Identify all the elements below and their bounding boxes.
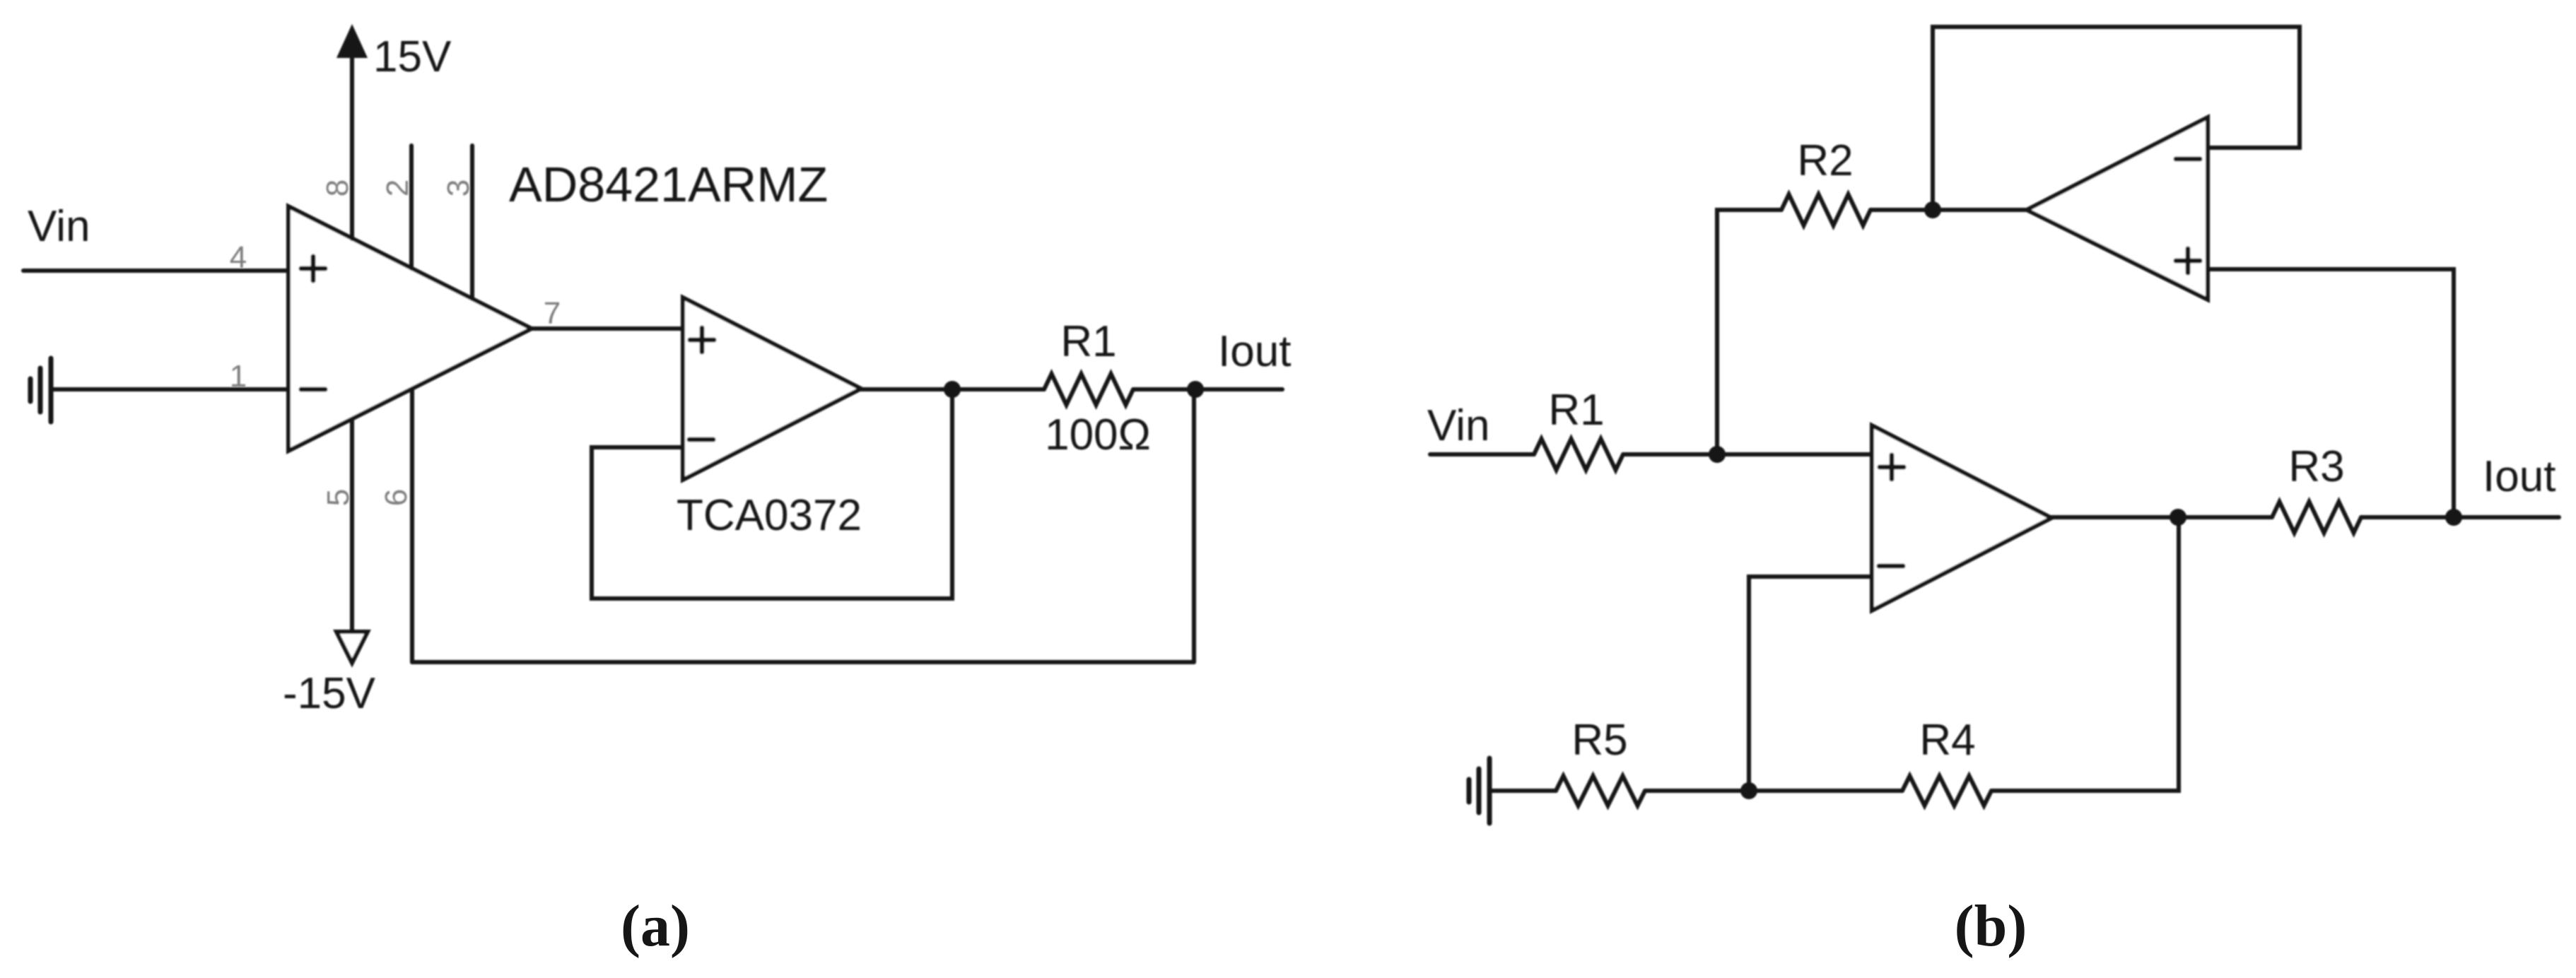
svg-text:Vin: Vin (1427, 401, 1490, 450)
wire bottom rail up to Iout node (1192, 389, 1196, 662)
wire ground to R5 (1489, 789, 1556, 793)
junction node output U2 (944, 381, 961, 398)
svg-text:5: 5 (321, 489, 356, 506)
op-amp U4 minus sign (1879, 564, 1903, 569)
wire R1 to Iout node (1133, 387, 1282, 391)
wire node A up to R2 (1717, 210, 1781, 454)
op-amp U1 plus sign (301, 257, 325, 281)
svg-text:-15V: -15V (283, 669, 376, 718)
svg-text:8: 8 (320, 179, 355, 196)
op-amp U4 plus sign (1880, 455, 1904, 479)
svg-text:7: 7 (544, 296, 561, 331)
wire U4 minus input (1749, 577, 1872, 791)
op-amp U2 TCA0372 triangle (683, 297, 861, 480)
svg-text:(a): (a) (621, 893, 690, 959)
wire node C down to R4 (1991, 517, 2179, 791)
svg-text:15V: 15V (373, 33, 452, 81)
svg-text:R4: R4 (1919, 716, 1975, 765)
svg-text:1: 1 (230, 359, 247, 394)
junction node Iout (b) (2445, 509, 2462, 526)
wire pin8 supply (350, 58, 354, 239)
junction node Iout (a) (1187, 381, 1204, 398)
wire Vin input (b) (1430, 452, 1534, 456)
svg-text:Iout: Iout (1218, 327, 1291, 376)
svg-text:AD8421ARMZ: AD8421ARMZ (509, 157, 828, 212)
svg-text:3: 3 (441, 179, 476, 196)
power -15V arrow (336, 632, 368, 663)
wire U2 output (861, 387, 1044, 391)
ground (a) (30, 358, 51, 422)
junction node A (b input) (1709, 446, 1726, 463)
resistor R5 zigzag (1556, 776, 1645, 806)
wire pin3 stub (470, 146, 474, 299)
op-amp U3 minus sign (2176, 157, 2200, 162)
resistor R1 (b) zigzag (1534, 439, 1623, 470)
junction node B (follower output) (1924, 201, 1941, 218)
op-amp U3 follower triangle (points left) (2027, 117, 2208, 300)
wire R1b to plus input (1623, 452, 1872, 456)
svg-text:R1: R1 (1548, 386, 1604, 435)
op-amp U1 AD8421 triangle (288, 206, 532, 451)
power +15V arrow (336, 24, 368, 58)
svg-text:R1: R1 (1060, 317, 1116, 366)
resistor R2 zigzag (1781, 194, 1870, 225)
wire bottom rail (a) (412, 660, 1194, 664)
svg-text:R2: R2 (1797, 136, 1853, 185)
svg-text:Vin: Vin (28, 202, 90, 251)
op-amp U2 plus sign (690, 328, 714, 352)
svg-text:Iout: Iout (2483, 452, 2555, 501)
ground (b) (1469, 758, 1489, 823)
wire R4 to node D (1645, 789, 1902, 793)
wire pin6 feedback down (410, 389, 414, 662)
svg-text:(b): (b) (1955, 893, 2027, 959)
wire pin4 input (23, 269, 288, 273)
resistor R1 (a) zigzag (1044, 374, 1133, 405)
junction node C (U4 output) (2170, 509, 2186, 526)
wire U3 minus feedback loop (1933, 27, 2300, 210)
wire U2 minus feedback (592, 389, 952, 599)
wire U3 plus input from Iout (2208, 269, 2454, 517)
wire U4 output (2051, 515, 2272, 519)
wire pin2 stub (409, 146, 414, 269)
wire pin5 supply (350, 419, 354, 632)
wire pin1 input (51, 387, 288, 391)
wire R3 to Iout (b) (2361, 515, 2559, 519)
wire R2 to follower tip (1870, 208, 2027, 212)
op-amp U2 minus sign (689, 437, 713, 442)
resistor R3 zigzag (2272, 502, 2361, 533)
svg-text:6: 6 (379, 489, 414, 506)
junction node D (R4 R5) (1740, 782, 1757, 799)
svg-text:2: 2 (380, 179, 415, 196)
op-amp U3 plus sign (2176, 249, 2200, 273)
resistor R4 zigzag (1902, 776, 1991, 806)
svg-text:TCA0372: TCA0372 (677, 491, 862, 540)
svg-text:R5: R5 (1571, 716, 1627, 765)
svg-text:R3: R3 (2288, 442, 2344, 491)
op-amp U1 minus sign (301, 387, 325, 392)
wire pin7 output to U2 (532, 326, 683, 331)
svg-text:100Ω: 100Ω (1045, 411, 1151, 459)
op-amp U4 triangle (b) (1872, 425, 2051, 611)
svg-text:4: 4 (230, 240, 247, 275)
